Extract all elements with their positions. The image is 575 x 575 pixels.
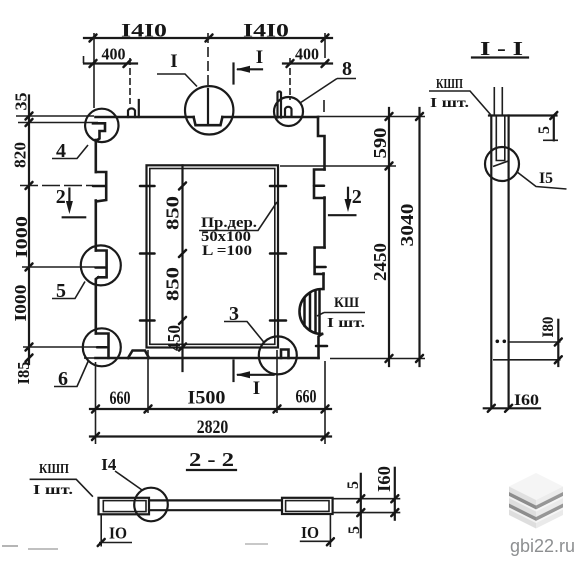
svg-text:850: 850 <box>163 267 183 301</box>
svg-text:I60: I60 <box>374 466 394 492</box>
bottom dimension line 2820 <box>90 417 331 440</box>
svg-text:5: 5 <box>536 126 553 134</box>
right dim text 3040 <box>397 204 417 247</box>
bottom extension opening right wall <box>276 350 278 413</box>
label 5 with leader <box>52 280 85 302</box>
bottom dimension line 660/1500/660 <box>90 387 331 413</box>
label 8 with leader <box>300 58 356 103</box>
panel right edge bottom <box>319 334 323 358</box>
KSh label at right edge <box>317 295 365 331</box>
inner opening inner rectangle <box>150 169 275 345</box>
section mark I top: bar and arrow <box>234 64 263 84</box>
panel right edge below notch B <box>322 274 325 290</box>
left edge keyway notch <box>96 172 106 202</box>
dim line 5/5 <box>345 474 364 538</box>
inner dim text 850 lower <box>163 267 183 301</box>
inner opening outer rectangle <box>147 165 279 347</box>
svg-text:КШП: КШП <box>436 77 463 92</box>
extension for 400 left at loop <box>129 58 131 104</box>
svg-text:5: 5 <box>346 526 363 534</box>
left dim text 35 <box>12 93 31 111</box>
left dim text 1000 lower <box>11 285 30 322</box>
svg-text:I4I0: I4I0 <box>121 21 167 42</box>
wood plug note text <box>201 215 257 259</box>
detail 4 corner rebate profile <box>93 123 105 141</box>
KSh semicircular key on right edge <box>300 289 323 334</box>
inner channel for plug <box>496 116 505 161</box>
svg-text:I80: I80 <box>540 317 557 338</box>
left box plug rectangle <box>103 501 146 512</box>
section I-I top cap line <box>489 114 557 116</box>
label 3 with leader <box>224 303 265 343</box>
svg-text:I000: I000 <box>11 285 30 322</box>
svg-text:I500: I500 <box>188 388 226 409</box>
svg-text:I: I <box>253 378 260 399</box>
left dim text 185 <box>14 362 33 385</box>
right edge tooth at row 346 <box>316 345 327 348</box>
detail circle 6 <box>83 328 121 366</box>
title I-I <box>472 38 528 60</box>
plug cross marks row 1 <box>140 185 286 188</box>
section mark 2 right: arrow down and bar <box>329 188 355 215</box>
panel top edge extension left <box>16 115 94 117</box>
svg-text:2: 2 <box>56 186 66 208</box>
section mark I bottom label <box>253 378 260 399</box>
svg-text:I000: I000 <box>12 216 31 258</box>
extension line right corner vertical <box>324 33 325 112</box>
top edge groove (detail I) <box>194 117 223 125</box>
gbi22.ru watermark text <box>510 536 575 556</box>
wood plug note underline and leader <box>199 202 277 231</box>
right dimension line 3040 <box>416 108 423 366</box>
web bottom line <box>149 509 282 511</box>
scan artifact dashes bottom left <box>2 546 58 549</box>
detail circle 15 <box>485 147 519 181</box>
right 10 dim <box>300 514 334 547</box>
svg-text:2 - 2: 2 - 2 <box>189 449 234 471</box>
detail 5 keyway bump <box>96 251 107 278</box>
section I-I wall right line <box>508 116 510 407</box>
svg-text:I60: I60 <box>514 392 539 409</box>
svg-text:590: 590 <box>370 128 390 159</box>
bottom edge extension left <box>84 357 96 359</box>
svg-text:I шт.: I шт. <box>430 96 469 111</box>
right edge tooth at row 267 <box>315 266 326 269</box>
plug dots in wall <box>496 340 507 344</box>
plug cross marks row 3 <box>140 319 286 322</box>
extension line left corner vertical <box>93 33 95 108</box>
section mark 2 left: arrow down and bar <box>63 189 85 218</box>
detail 6 corner foot <box>96 334 109 359</box>
gbi22 logo slab stack <box>509 473 563 529</box>
bottom edge trapezoid key left <box>128 351 149 359</box>
svg-text:820: 820 <box>11 142 30 168</box>
left 10 dim <box>98 514 132 546</box>
section mark 2 left label <box>56 186 66 208</box>
dim 5 at top right of I-I <box>536 112 558 140</box>
bottom dim 160 of I-I <box>484 392 540 412</box>
extension for 400 right at loop <box>289 58 291 100</box>
svg-text:КШ: КШ <box>334 295 359 311</box>
svg-text:5: 5 <box>345 481 362 489</box>
right dimension line 590/2450 <box>386 108 393 366</box>
bottom extension right corner <box>324 361 326 444</box>
detail circle 8 <box>274 97 303 126</box>
svg-text:850: 850 <box>163 196 183 230</box>
rebate ledge extension left (35 offset) <box>18 122 98 124</box>
svg-text:L =100: L =100 <box>202 243 252 259</box>
section I-I wall left line <box>490 116 492 407</box>
svg-text:I5: I5 <box>539 170 553 187</box>
loop wires above cap <box>494 87 502 116</box>
lifting loop left on top edge <box>128 100 139 117</box>
dimension line 1410+1410 <box>84 21 332 42</box>
section mark 2 right label <box>352 186 362 208</box>
label I top-left with leader <box>157 51 197 87</box>
svg-text:IO: IO <box>301 523 319 542</box>
dimension 400 left <box>84 45 137 68</box>
plug cross marks row 2 <box>140 252 286 255</box>
right edge tooth at row 186 <box>314 184 324 187</box>
svg-text:2820: 2820 <box>197 417 229 438</box>
svg-text:I4: I4 <box>101 455 116 474</box>
right end box of section 2-2 <box>282 498 333 514</box>
detail circle I (top groove) <box>185 86 233 134</box>
extension row 347 left <box>23 346 107 348</box>
dim line 180 <box>540 317 562 367</box>
panel right edge between notches <box>323 198 326 248</box>
inner dim text 850 upper <box>163 196 183 230</box>
svg-text:2: 2 <box>352 186 362 208</box>
detail circle 3 <box>259 336 297 374</box>
svg-text:I шт.: I шт. <box>327 316 365 331</box>
svg-text:400: 400 <box>295 45 319 64</box>
svg-text:2450: 2450 <box>370 243 390 281</box>
right box plug rectangle <box>286 501 329 512</box>
right dim text 2450 <box>370 243 390 281</box>
extension row 267 left <box>22 266 105 269</box>
right dim text 590 <box>370 128 390 159</box>
svg-text:35: 35 <box>12 93 31 111</box>
detail circle 4 <box>85 109 118 142</box>
svg-text:3040: 3040 <box>397 204 417 247</box>
svg-text:I4I0: I4I0 <box>243 21 289 42</box>
svg-text:660: 660 <box>110 388 131 409</box>
panel left edge middle <box>95 201 98 251</box>
dim line overshoot dash top left <box>83 56 85 63</box>
label I4 with leader <box>101 455 142 490</box>
web top line <box>149 499 282 501</box>
extension lines for 180 dim <box>493 342 561 360</box>
dim line 160 of 2-2 <box>374 466 398 520</box>
panel left edge upper <box>95 140 98 172</box>
right edge keyway notch A <box>314 170 325 199</box>
svg-text:I: I <box>256 47 263 68</box>
panel left edge lower <box>96 277 98 333</box>
extension lines right of section 2-2 <box>333 499 401 513</box>
section mark I bottom: bar and arrow <box>234 361 274 381</box>
bottom extension left corner <box>95 362 97 444</box>
extension row 186 left <box>20 185 105 188</box>
lifting loop right hairpin <box>278 91 282 117</box>
svg-text:gbi22.ru: gbi22.ru <box>510 536 575 556</box>
extension line mid section axis <box>207 33 209 125</box>
svg-text:IO: IO <box>109 524 127 543</box>
left dim text 820 <box>11 142 30 168</box>
detail circle 5 <box>81 245 121 285</box>
panel top edge <box>96 116 319 119</box>
scan artifact dash bottom middle <box>245 543 268 545</box>
label 4 with leader <box>52 140 88 162</box>
svg-text:8: 8 <box>342 58 352 80</box>
inner dim text 450 <box>164 325 184 351</box>
channel bottom diagonal <box>493 161 509 167</box>
svg-text:I85: I85 <box>14 362 33 385</box>
left vertical dimension line <box>26 96 33 365</box>
right extension bottom <box>330 358 425 360</box>
svg-text:I: I <box>170 51 177 72</box>
section mark I top label <box>256 47 263 68</box>
left dim text 1000 upper <box>12 216 31 258</box>
detail circle 14 <box>134 488 168 522</box>
title 2-2 <box>187 449 236 471</box>
label I5 with leader <box>517 170 567 189</box>
bottom extension opening left wall <box>147 350 149 413</box>
dimension 400 right <box>283 45 332 68</box>
panel bottom edge <box>96 357 319 360</box>
KShP note at section 2-2 <box>30 462 93 498</box>
right extension top edge <box>318 116 425 118</box>
svg-text:400: 400 <box>102 45 126 64</box>
svg-text:450: 450 <box>164 325 184 351</box>
label 6 with leader <box>54 361 89 391</box>
panel right edge upper with corner step <box>318 117 325 170</box>
inner vertical dimension line 850/850/450 <box>179 165 186 371</box>
KShP note at section I-I <box>429 77 491 115</box>
right extension opening top <box>280 165 396 167</box>
right edge keyway notch B <box>315 248 325 275</box>
svg-text:КШП: КШП <box>39 462 69 477</box>
bottom edge rect key right <box>281 350 289 359</box>
left end box of section 2-2 <box>99 498 150 515</box>
lifting loop right arch <box>285 107 292 117</box>
svg-text:I шт.: I шт. <box>33 483 73 498</box>
svg-text:660: 660 <box>296 387 317 408</box>
